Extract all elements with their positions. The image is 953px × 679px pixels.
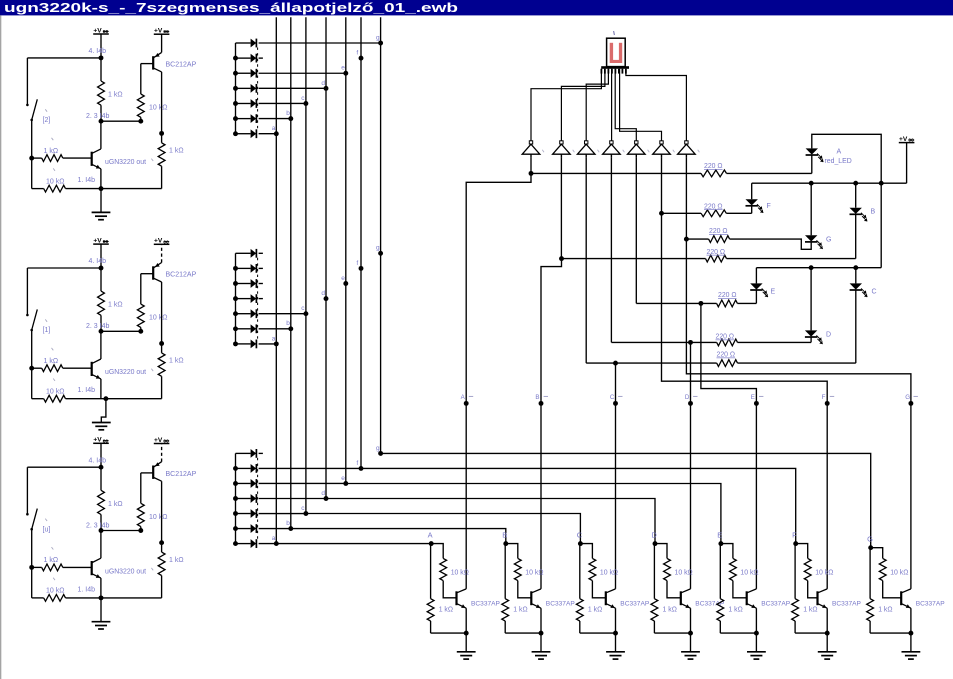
diode D37 (236, 543, 251, 545)
diode D27 (236, 343, 251, 345)
wire conn3 drop (585, 158, 587, 364)
wire bus a (275, 17, 277, 543)
ground GND-B (101, 399, 106, 423)
svg-text:F: F (822, 394, 826, 401)
wire trunk b (541, 259, 562, 589)
wire cathode (259, 133, 277, 135)
junction rail 37 (233, 541, 238, 546)
resistor R_G 220 (709, 236, 730, 243)
wire (32, 367, 42, 369)
svg-text:2. 3 I4b: 2. 3 I4b (86, 522, 109, 529)
diode D23 (236, 283, 251, 285)
LED F (746, 199, 758, 205)
diode D12 (236, 57, 251, 59)
diode D16 (236, 118, 251, 120)
svg-text:BC337AP: BC337AP (620, 601, 650, 608)
wire (751, 183, 753, 199)
dashed cathode guide (257, 48, 259, 130)
svg-text:10 kΩ: 10 kΩ (46, 178, 64, 185)
node conn-B (539, 401, 544, 406)
svg-text:1 kΩ: 1 kΩ (169, 148, 184, 155)
wire (655, 544, 667, 559)
junction rail 16 (233, 116, 238, 121)
wire (161, 344, 163, 353)
wire pin3 to conn3 (586, 69, 608, 141)
svg-text:d: d (321, 490, 325, 497)
wire (906, 143, 908, 184)
svg-text:G: G (905, 394, 910, 401)
resistor RA1 1k (98, 81, 105, 105)
wire cathode (259, 87, 326, 89)
wire anode rail stack 3 (235, 453, 237, 543)
wire (690, 608, 692, 633)
junction A-sw (29, 156, 34, 161)
junction rail 27 (233, 341, 238, 346)
diode D22 (236, 267, 251, 269)
connector triangle T3 (585, 141, 588, 144)
svg-text:B: B (502, 530, 507, 539)
wire (540, 608, 542, 633)
wire cathode (259, 283, 263, 285)
resistor RCe 1k (576, 599, 583, 621)
node e stack3 (343, 481, 348, 486)
svg-text:10 kΩ: 10 kΩ (600, 570, 618, 577)
svg-text:g: g (376, 245, 380, 252)
diode D26 (236, 328, 251, 330)
wire (101, 120, 141, 122)
junction emitter-G (908, 631, 913, 636)
node 1.14b C (99, 595, 104, 600)
wire cathode (259, 298, 263, 300)
resistor RDe 1k (651, 599, 658, 621)
wire (161, 72, 163, 133)
wire (140, 327, 142, 331)
junction emitter-D (688, 631, 693, 636)
svg-text:10 kΩ: 10 kΩ (149, 315, 167, 322)
diode D31 (236, 452, 251, 454)
svg-text:10 kΩ: 10 kΩ (149, 514, 167, 521)
wire (855, 290, 857, 363)
wire (161, 34, 163, 52)
resistor RGe 1k (867, 599, 874, 621)
resistor REe 1k (717, 599, 724, 621)
resistor RB2 10k (137, 304, 144, 327)
wire cathode (259, 452, 263, 454)
transistor QC BC337AP npn (605, 591, 607, 605)
wire (690, 633, 692, 652)
wire (755, 290, 757, 303)
junction emitter-A (464, 631, 469, 636)
ground GND-G (902, 651, 921, 653)
wire (31, 330, 33, 368)
ground GND-B (532, 651, 551, 653)
connector triangle T6 (660, 141, 663, 144)
node 1.14b A (99, 186, 104, 191)
wire (562, 258, 706, 260)
resistor R_E 220 (717, 300, 738, 307)
wire (530, 158, 532, 174)
wire (826, 633, 828, 652)
connector triangle T7 (685, 141, 688, 144)
window left edge (0, 15, 2, 679)
node base-B (503, 541, 508, 546)
svg-text:A: A (428, 530, 433, 539)
junction rail 17 (233, 131, 238, 136)
svg-text:2. 3 I4b: 2. 3 I4b (86, 323, 109, 330)
wire anode rail stack 1 (235, 43, 237, 134)
display pin stubs (600, 69, 602, 74)
switch SB (26, 268, 28, 315)
wire cathode (259, 252, 263, 254)
svg-text:10 kΩ: 10 kΩ (740, 570, 758, 577)
junction g-conn (684, 237, 689, 242)
junction rail2-c (853, 265, 858, 270)
svg-text:220 Ω: 220 Ω (704, 163, 723, 170)
svg-text:G: G (826, 237, 831, 244)
diode D25 (236, 313, 251, 315)
wire (615, 633, 617, 652)
wire cathode (259, 497, 326, 499)
wire (531, 172, 701, 174)
wire conn7 drop (685, 158, 687, 240)
svg-text:1 kΩ: 1 kΩ (803, 607, 817, 614)
node conn-F (825, 401, 830, 406)
node base-A (429, 541, 434, 546)
resistor R_A 220 (701, 170, 727, 177)
svg-text:ugn3220k-s_-_7szegmenses_állap: ugn3220k-s_-_7szegmenses_állapotjelző_01… (4, 0, 458, 15)
wire (653, 543, 656, 545)
node f stack1 (359, 56, 364, 61)
wire (504, 543, 507, 545)
node c stack2 (303, 311, 308, 316)
transistor QC2 uGN3220 npn (91, 561, 93, 575)
node a stack1 (274, 131, 279, 136)
wire (636, 302, 716, 304)
svg-text:e: e (341, 475, 345, 482)
junction rail1-a (879, 181, 884, 186)
node c stack1 (303, 101, 308, 106)
wire bus e (345, 17, 347, 483)
svg-text:C: C (577, 530, 583, 539)
LED A red_LED (806, 148, 818, 154)
wire (100, 105, 102, 121)
diode D15 (236, 102, 251, 104)
svg-text:[2]: [2] (43, 117, 51, 124)
wire (100, 515, 102, 531)
svg-text:[u]: [u] (43, 526, 51, 533)
svg-text:B: B (871, 209, 876, 216)
dashed cathode guide (257, 258, 259, 340)
display segments lit (U) (610, 43, 613, 63)
node d stack2 (324, 296, 329, 301)
wire (101, 330, 141, 332)
svg-text:10 kΩ: 10 kΩ (149, 105, 167, 112)
wire pin4 to conn4 (611, 69, 613, 141)
wire cathode (259, 42, 381, 44)
svg-text:1 kΩ: 1 kΩ (44, 557, 59, 564)
wire anode rail stack 2 (235, 253, 237, 344)
wire cathode (259, 72, 346, 74)
junction rail 12 (233, 56, 238, 61)
node base-C (578, 541, 583, 546)
wire (32, 566, 42, 568)
resistor R_C 220 (717, 360, 738, 367)
svg-text:1 kΩ: 1 kΩ (44, 358, 59, 365)
wire (431, 544, 443, 559)
svg-text:1 kΩ: 1 kΩ (878, 607, 892, 614)
svg-text:E: E (771, 289, 776, 296)
svg-text:a: a (272, 535, 276, 542)
connector triangle T5 (635, 141, 638, 144)
junction rail 25 (233, 311, 238, 316)
wire pin1 to conn1 (531, 69, 601, 141)
svg-text:uGN3220 out: uGN3220 out (105, 159, 146, 166)
dashed cathode guide (257, 458, 259, 539)
wire (100, 467, 102, 490)
wire trunk f (662, 213, 828, 589)
node g stack2 (378, 251, 383, 256)
display body (607, 38, 626, 66)
transistor QD BC337AP npn (680, 591, 682, 605)
svg-text:10 kΩ: 10 kΩ (46, 588, 64, 595)
wire (161, 481, 163, 543)
svg-text:10 kΩ: 10 kΩ (525, 570, 543, 577)
resistor RCb 10k (589, 558, 596, 580)
wire (755, 608, 757, 633)
wire cathode (259, 102, 306, 104)
ground GND-A (100, 189, 102, 213)
diode D32 (236, 467, 251, 469)
svg-text:BC337AP: BC337AP (471, 601, 501, 608)
wire (855, 268, 857, 284)
LED C (850, 283, 862, 289)
transistor QE BC337AP npn (746, 591, 748, 605)
wire (32, 398, 44, 400)
junction B-base10k (138, 329, 143, 334)
node e stack2 (343, 281, 348, 286)
wire net f to driver (361, 468, 796, 543)
junction emitter-C (613, 631, 618, 636)
wire (465, 608, 467, 633)
svg-text:1 kΩ: 1 kΩ (108, 501, 123, 508)
transistor QF BC337AP npn (816, 591, 818, 605)
wire (27, 57, 101, 59)
wire (721, 544, 733, 559)
wire (100, 58, 102, 81)
junction B-top (99, 266, 104, 271)
resistor RA5 10k (44, 185, 66, 192)
transistor QA BC337AP npn (455, 591, 457, 605)
svg-text:BC337AP: BC337AP (546, 601, 576, 608)
wire (810, 183, 812, 235)
decorative (613, 31, 616, 35)
node b stack1 (288, 116, 293, 121)
node conn-A (464, 401, 469, 406)
wire trunk d (690, 342, 692, 589)
wire (465, 633, 467, 652)
LED G (805, 235, 817, 241)
svg-text:4. I4b: 4. I4b (89, 258, 107, 265)
junction rail 15 (233, 101, 238, 106)
connector triangle T2 (560, 141, 563, 144)
svg-text:A: A (837, 149, 842, 156)
wire bus c (305, 17, 307, 513)
wire (910, 608, 912, 633)
wire net d to driver (326, 499, 655, 544)
wire (32, 157, 42, 159)
node 2.3 B (99, 329, 104, 334)
wire (31, 120, 33, 158)
node 2.3 A (99, 119, 104, 124)
wire cathode (259, 328, 291, 330)
junction rail1-g (809, 181, 814, 186)
diode D36 (236, 528, 251, 530)
wire cathode (259, 482, 346, 484)
svg-text:D: D (651, 530, 656, 539)
wire (719, 543, 722, 545)
wire (810, 337, 812, 342)
junction rail 23 (233, 281, 238, 286)
wire +V rail lower (880, 183, 882, 268)
svg-text:D: D (685, 394, 690, 401)
resistor RA3 1k (158, 143, 165, 166)
svg-text:D: D (826, 332, 831, 339)
svg-text:B: B (535, 394, 539, 401)
wire (611, 341, 716, 343)
ground GND-E (747, 651, 766, 653)
svg-text:10 kΩ: 10 kΩ (675, 570, 693, 577)
wire pin2 to conn2 (561, 69, 605, 141)
wire (580, 544, 592, 559)
svg-text:10 kΩ: 10 kΩ (815, 570, 833, 577)
wire trunk a (466, 173, 531, 589)
ground GND-C (100, 598, 102, 622)
svg-text:a: a (272, 125, 276, 132)
wire bus f (360, 17, 362, 468)
wire (855, 214, 857, 258)
switch SC (26, 467, 28, 514)
decorative (45, 109, 47, 111)
connector triangle T4 (610, 141, 613, 144)
wire trunk c (615, 363, 617, 589)
junction d-conn (688, 340, 693, 345)
svg-text:E: E (717, 530, 722, 539)
svg-text:e: e (341, 65, 345, 72)
resistor RFb 10k (804, 558, 811, 580)
LED D (805, 330, 817, 336)
node out-A (159, 131, 164, 136)
node 1.14b B (103, 396, 108, 401)
wire net b to driver (291, 529, 506, 544)
wire (910, 633, 912, 652)
junction c-conn (613, 361, 618, 366)
resistor RA4 1k (42, 155, 63, 162)
wire cathode (259, 313, 306, 315)
svg-text:BC212AP: BC212AP (166, 272, 197, 279)
wire (430, 543, 433, 545)
ground GND-A (457, 651, 476, 653)
junction A-top (99, 55, 104, 60)
wire (579, 543, 582, 545)
resistor RB1 1k (98, 291, 105, 315)
resistor RAb 10k (440, 558, 447, 580)
svg-text:1 kΩ: 1 kΩ (169, 557, 184, 564)
svg-text:220 Ω: 220 Ω (707, 249, 726, 256)
wire cathode (259, 467, 361, 469)
wire conn4 drop (610, 158, 612, 343)
svg-text:f: f (356, 260, 358, 267)
wire (100, 244, 102, 268)
transistor QB1 BC212AP pnp (152, 266, 154, 279)
node e stack1 (343, 71, 348, 76)
junction emitter-B (539, 631, 544, 636)
wire cathode (259, 543, 277, 545)
junction rail 24 (233, 296, 238, 301)
resistor R_F 220 (701, 210, 726, 217)
wire trunk g (686, 239, 911, 589)
wire conn5 drop (635, 158, 637, 304)
svg-text:C: C (610, 394, 615, 401)
svg-text:1. I4b: 1. I4b (78, 586, 96, 593)
wire (871, 548, 883, 559)
resistor RAe 1k (427, 599, 434, 621)
wire (506, 544, 518, 559)
diode D24 (236, 298, 251, 300)
wire net g to driver (381, 453, 871, 547)
junction C-top (99, 465, 104, 470)
svg-text:220 Ω: 220 Ω (716, 334, 735, 341)
resistor RC5 10k (44, 595, 66, 602)
resistor RBe 1k (502, 599, 509, 621)
svg-text:f: f (356, 460, 358, 467)
wire (730, 239, 812, 249)
node base-E (718, 541, 723, 546)
svg-text:red_LED: red_LED (825, 158, 852, 165)
wire net c to driver (306, 514, 581, 544)
wire cathode (259, 267, 263, 269)
ground GND-F (818, 651, 837, 653)
node a stack3 (274, 541, 279, 546)
svg-text:BC337AP: BC337AP (832, 601, 862, 608)
svg-text:4. I4b: 4. I4b (89, 457, 107, 464)
svg-text:b: b (286, 320, 290, 327)
diode D35 (236, 513, 251, 515)
junction B-sw (29, 366, 34, 371)
resistor RDb 10k (664, 558, 671, 580)
wire (751, 206, 753, 213)
wire pin8 to conn7 (626, 69, 687, 141)
junction rail2-d (809, 265, 814, 270)
wire (794, 543, 797, 545)
wire cathode (259, 57, 263, 59)
diode D21 (236, 252, 251, 254)
wire (161, 244, 163, 262)
svg-text:E: E (751, 394, 755, 401)
ground GND-C (606, 651, 625, 653)
wire (826, 608, 828, 633)
node b stack3 (288, 526, 293, 531)
junction A-base10k (138, 119, 143, 124)
svg-text:1 kΩ: 1 kΩ (439, 607, 453, 614)
wire (161, 444, 163, 462)
resistor RFe 1k (792, 599, 799, 621)
wire (662, 212, 702, 214)
junction e-conn (698, 301, 703, 306)
wire (100, 34, 102, 58)
junction f-conn (659, 211, 664, 216)
wire (27, 466, 101, 468)
wire (855, 183, 857, 208)
